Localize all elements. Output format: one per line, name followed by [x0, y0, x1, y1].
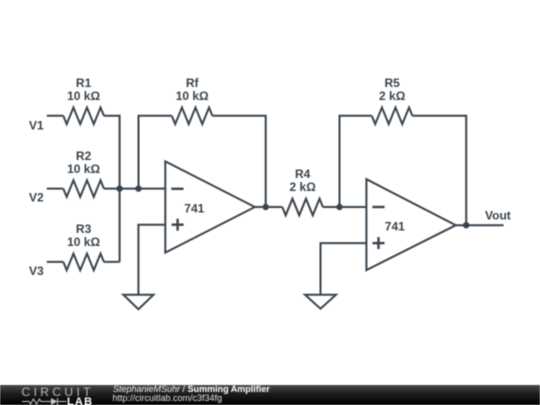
wire R4 to node C to op-amp U2 inverting input	[323, 206, 367, 208]
wire R5 right to Vout node	[412, 116, 466, 225]
wire node A to node B to op-amp U1 inverting input	[120, 188, 166, 190]
wire U2 plus input to ground stub	[321, 243, 367, 295]
ground symbol 1	[123, 295, 153, 309]
wire R1 to input bus	[104, 115, 120, 117]
svg-text:2 kΩ: 2 kΩ	[290, 180, 317, 194]
wire R5 left vertical from node C	[340, 116, 372, 207]
svg-text:10 kΩ: 10 kΩ	[67, 162, 100, 176]
resistor R3	[63, 254, 104, 271]
resistor R2	[63, 180, 104, 197]
svg-text:Rf: Rf	[186, 76, 200, 90]
svg-text:LAB: LAB	[67, 396, 93, 405]
svg-text:V1: V1	[29, 119, 44, 133]
svg-text:R1: R1	[76, 76, 92, 90]
node B junction dot	[135, 185, 141, 191]
wire Rf left vertical from node B	[139, 116, 172, 189]
wire V2 terminal to R2	[47, 188, 64, 190]
resistor Rf	[172, 108, 213, 125]
resistor R4	[282, 199, 323, 216]
svg-text:Vout: Vout	[485, 209, 511, 223]
svg-text:R5: R5	[385, 76, 401, 90]
ground symbol 2	[305, 295, 336, 309]
svg-text:10 kΩ: 10 kΩ	[176, 89, 209, 103]
wire U1 output to R4	[255, 206, 282, 208]
node Vout junction dot	[463, 222, 469, 228]
wire V3 terminal to R3	[47, 261, 64, 263]
wire Rf right to op-amp U1 output node	[212, 116, 265, 207]
wire R2 to node A	[104, 188, 120, 190]
svg-text:R2: R2	[76, 149, 92, 163]
svg-text:10 kΩ: 10 kΩ	[67, 89, 100, 103]
svg-text:2 kΩ: 2 kΩ	[379, 89, 406, 103]
wire input bus vertical	[119, 115, 121, 262]
svg-text:R4: R4	[295, 167, 311, 181]
wire U1 plus input to ground stub	[138, 225, 165, 295]
CircuitLab logo symbol row: resistor zigzag, diode, LAB	[20, 396, 95, 405]
wire V1 terminal to R1	[47, 115, 64, 117]
node U1 output junction dot	[263, 204, 269, 210]
svg-text:V2: V2	[29, 191, 44, 205]
node A junction dot	[116, 185, 122, 191]
svg-text:10 kΩ: 10 kΩ	[67, 235, 100, 249]
footer bar	[0, 385, 540, 405]
CircuitLab logo wordmark	[22, 385, 94, 399]
resistor R5	[372, 108, 413, 125]
op-amp U1	[165, 161, 255, 252]
resistor R1	[63, 108, 104, 125]
op-amp U2	[366, 179, 455, 270]
footer url line	[113, 393, 223, 403]
svg-text:V3: V3	[29, 264, 44, 278]
footer credit line	[113, 384, 270, 394]
wire R3 to input bus	[104, 261, 120, 263]
svg-text:741: 741	[184, 201, 204, 215]
node C junction dot	[336, 204, 342, 210]
svg-text:R3: R3	[76, 222, 92, 236]
svg-text:741: 741	[385, 219, 405, 233]
wire U2 output to Vout	[456, 224, 504, 226]
